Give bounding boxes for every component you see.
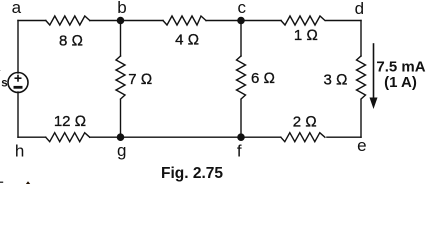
svg-text:c: c xyxy=(237,0,246,17)
svg-text:a: a xyxy=(12,0,22,17)
svg-text:d: d xyxy=(355,0,364,18)
svg-text:6 Ω: 6 Ω xyxy=(251,70,275,87)
svg-text:g: g xyxy=(117,141,126,160)
svg-text:4 Ω: 4 Ω xyxy=(175,31,199,48)
svg-text:f: f xyxy=(237,142,242,161)
svg-text:3 Ω: 3 Ω xyxy=(323,72,347,89)
svg-text:Fig. 2.75: Fig. 2.75 xyxy=(161,165,223,182)
svg-text:2 Ω: 2 Ω xyxy=(293,114,317,131)
svg-text:7 Ω: 7 Ω xyxy=(128,71,152,88)
svg-text:h: h xyxy=(15,142,24,161)
svg-text:s: s xyxy=(1,78,7,90)
svg-text:(1 A): (1 A) xyxy=(384,74,417,91)
svg-text:e: e xyxy=(357,136,366,155)
svg-text:12 Ω: 12 Ω xyxy=(54,113,86,130)
svg-text:8 Ω: 8 Ω xyxy=(59,32,83,49)
svg-text:b: b xyxy=(117,0,126,17)
svg-text:1 Ω: 1 Ω xyxy=(294,27,318,44)
